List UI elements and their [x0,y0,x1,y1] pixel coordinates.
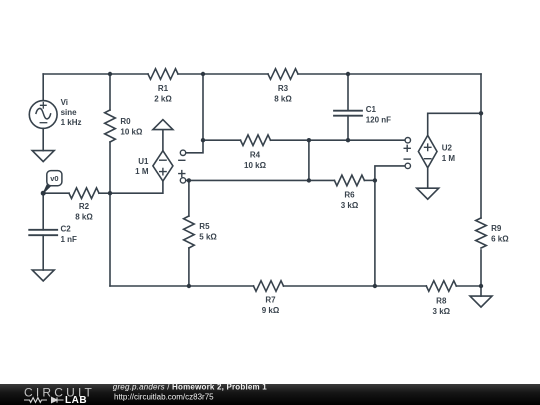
svg-text:R9: R9 [491,224,502,233]
svg-text:sine: sine [61,108,78,117]
junction dot node B [201,72,205,76]
wire top left horizontal [43,73,148,75]
svg-text:3 kΩ: 3 kΩ [433,307,451,316]
svg-text:greg.p.anders / Homework 2, Pr: greg.p.anders / Homework 2, Problem 1 [113,382,267,391]
Vi plus sign [41,103,47,109]
junction dot R4 branch [201,138,205,142]
U2 minus terminal sign [404,158,410,160]
bottom bus right segment [456,285,481,287]
wire U1 plus terminal row [186,179,335,181]
wire U2 bottom to ground [427,168,429,188]
U2 minus terminal circle [405,163,410,168]
resistor R5 lead bottom [188,248,190,286]
junction dot U1 plus [187,178,191,182]
wire R4 to U2 plus terminal [271,139,406,141]
junction dot U2 rail [479,111,483,115]
v0 flag box [47,171,62,186]
dep source U2 diamond [418,135,437,168]
resistor R2 [69,188,99,199]
resistor R5 lead top [188,180,190,216]
resistor R0 lead top [109,74,111,110]
capacitor C2 bottom lead [42,235,44,270]
wire Vi to ground [42,128,44,150]
Vi sine wave [36,108,51,118]
svg-text:120 nF: 120 nF [366,116,391,125]
resistor R1 [148,69,178,80]
bottom bus mid segment [284,285,427,287]
ground below R8 R9 [470,296,492,307]
source Vi circle [29,101,57,129]
svg-text:10 kΩ: 10 kΩ [120,128,143,137]
wire U1 bottom to left junction [110,181,163,193]
ground below U2 [417,188,439,199]
capacitor C1 bottom lead [347,116,349,141]
svg-text:R8: R8 [436,297,447,306]
wire U2 minus terminal to R6 junction [375,166,405,181]
svg-text:10 kΩ: 10 kΩ [244,161,267,170]
U1 minus terminal circle [180,150,185,155]
wire R4 left lead [203,139,241,141]
U1 plus terminal sign [179,171,185,177]
capacitor C2 top lead [42,193,44,230]
svg-text:1 M: 1 M [442,154,456,163]
U1 internal plus [160,168,166,174]
wire v0 node to R2 [45,192,69,194]
resistor R5 [184,216,195,248]
svg-text:v0: v0 [50,174,58,183]
wire cross link C1 row to R6 row [308,140,310,180]
svg-text:R7: R7 [265,296,276,305]
U2 internal plus [425,144,431,150]
wire R3 to top right corner [298,73,481,75]
footer logo doodle wire resistor diode [24,397,64,402]
junction dot node A [108,72,112,76]
resistor R7 [254,281,284,292]
svg-text:2 kΩ: 2 kΩ [154,95,172,104]
v0 flag pointer [43,184,51,194]
svg-text:1 nF: 1 nF [61,235,78,244]
junction dot C1 bottom [346,138,350,142]
dep source U1 diamond [153,151,173,181]
svg-text:http://circuitlab.com/cz83r75: http://circuitlab.com/cz83r75 [114,393,214,402]
U2 plus terminal circle [405,138,410,143]
capacitor C1 plates [334,111,362,116]
junction dot v0 node [41,191,46,196]
svg-text:3 kΩ: 3 kΩ [341,201,359,210]
resistor R4 [241,135,271,146]
svg-text:R2: R2 [79,202,90,211]
svg-text:8 kΩ: 8 kΩ [75,213,93,222]
ground below Vi [32,151,54,162]
svg-text:9 kΩ: 9 kΩ [262,306,280,315]
wire R2 to junction [99,192,110,194]
svg-text:C2: C2 [61,225,72,234]
wire R6 junction down to bus [374,180,376,286]
resistor R9 [476,218,487,248]
svg-text:U2: U2 [442,144,453,153]
U2 plus terminal sign [404,145,410,151]
U1 internal minus [160,159,166,161]
svg-text:R6: R6 [344,191,355,200]
junction dot cross link top [307,138,311,142]
junction dot R5 bus [187,284,191,288]
wire U2 top to right rail [428,113,481,135]
wire R9 bottom to bus [480,250,482,286]
svg-text:U1: U1 [138,157,149,166]
U1 minus terminal sign [179,159,185,161]
resistor R6 [334,175,364,186]
svg-text:1 M: 1 M [135,167,149,176]
wire R0 bottom down left rail [109,142,111,286]
Vi minus sign [40,122,47,124]
ground below C2 [32,270,54,281]
svg-text:8 kΩ: 8 kΩ [274,95,292,104]
resistor R0 [105,110,116,142]
U2 internal minus [425,158,431,160]
capacitor C1 top lead [347,74,349,111]
svg-text:R3: R3 [278,84,289,93]
wire R1 to R3 [178,73,268,75]
junction dot R6 right [373,178,377,182]
svg-text:R1: R1 [158,84,169,93]
svg-text:6 kΩ: 6 kΩ [491,234,509,243]
svg-text:R5: R5 [199,222,210,231]
arrow above U1 [153,120,173,151]
svg-text:R4: R4 [250,151,261,160]
junction dot R6 bus [373,284,377,288]
U1 plus terminal circle [180,178,185,183]
svg-text:Vi: Vi [61,98,68,107]
wire bus to ground right [480,286,482,296]
wire top to Vi [42,74,44,101]
wire right edge down to R9 [480,74,482,218]
svg-text:C1: C1 [366,105,377,114]
svg-text:R0: R0 [120,117,131,126]
junction dot R2 R0 [108,191,112,195]
junction dot node C1 top [346,72,350,76]
wire node B down to U1 minus terminal [186,74,203,153]
bottom bus left segment [110,285,254,287]
junction dot R8 R9 bus [479,284,483,288]
resistor R8 [426,281,456,292]
svg-text:5 kΩ: 5 kΩ [199,233,217,242]
svg-text:LAB: LAB [65,395,87,405]
capacitor C2 plates [29,230,57,235]
junction dot cross link bottom [307,178,311,182]
footer bar [0,384,540,405]
wire R6 right lead [364,179,375,181]
resistor R3 [268,69,298,80]
svg-text:1 kHz: 1 kHz [61,118,82,127]
